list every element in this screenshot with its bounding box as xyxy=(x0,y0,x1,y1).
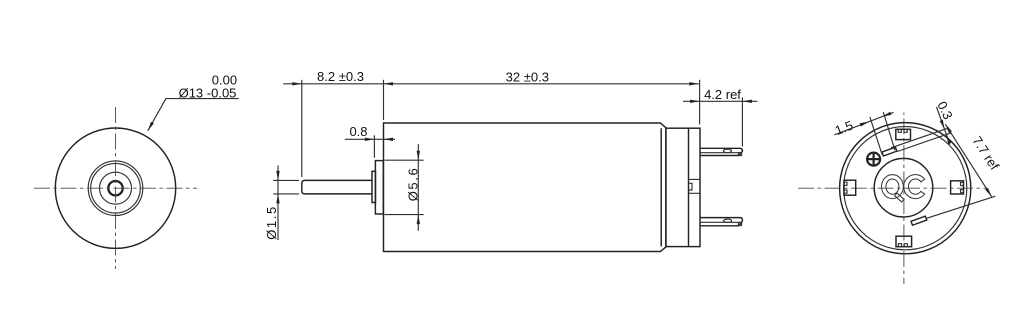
svg-text:0.8: 0.8 xyxy=(349,124,367,139)
svg-text:Ø1.5: Ø1.5 xyxy=(264,205,279,240)
svg-text:4.2 ref: 4.2 ref xyxy=(704,87,741,102)
svg-text:32 ±0.3: 32 ±0.3 xyxy=(506,69,549,84)
svg-text:8.2 ±0.3: 8.2 ±0.3 xyxy=(317,69,364,84)
svg-text:Ø5.6: Ø5.6 xyxy=(405,167,420,202)
svg-text:Ø13 -0.05: Ø13 -0.05 xyxy=(179,86,237,101)
